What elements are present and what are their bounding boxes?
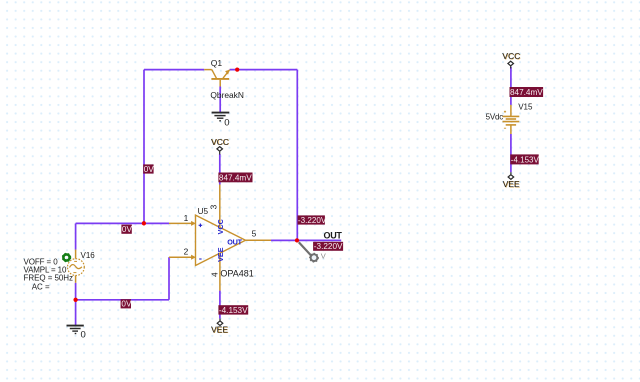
svg-text:0V: 0V xyxy=(122,225,133,234)
wire: V16 bottom down to ground junction xyxy=(75,283,77,325)
voltage label 0V (below pin1 wire) xyxy=(121,225,132,234)
voltage label -3.220V (OUT) xyxy=(313,242,343,251)
svg-text:847.4mV: 847.4mV xyxy=(510,88,543,97)
svg-text:VCC: VCC xyxy=(211,137,229,147)
svg-text:V15: V15 xyxy=(518,102,533,111)
op-amp plus input mark xyxy=(199,224,203,228)
svg-text:VEE: VEE xyxy=(211,325,228,335)
ground 0 (bottom left) xyxy=(67,326,84,334)
junction dot (OUT node) xyxy=(295,238,299,242)
op-amp U5 pin1 lead xyxy=(169,221,195,225)
voltage label 847.4mV (right) xyxy=(510,87,544,97)
svg-text:V16: V16 xyxy=(81,251,96,260)
svg-text:0V: 0V xyxy=(144,165,155,174)
bias point marker (green) xyxy=(62,253,70,261)
svg-text:VEE: VEE xyxy=(216,247,225,262)
ground 0 under Q1 xyxy=(212,113,230,121)
wire: op-amp output to OUT stub xyxy=(271,239,341,241)
wire: Q1 emitter to right corner xyxy=(230,69,298,71)
wire: vertical up to op-amp pin 2 xyxy=(168,257,170,300)
svg-text:4: 4 xyxy=(210,272,220,277)
voltage label -3.220V (right vertical wire) xyxy=(298,215,327,225)
wire: VCC branch down to op-amp pin 3 xyxy=(219,154,221,185)
wire: right vertical down to OUT node xyxy=(296,70,298,241)
svg-text:3: 3 xyxy=(209,204,219,209)
source V16 xyxy=(68,250,85,283)
svg-text:VCC: VCC xyxy=(216,219,225,234)
svg-text:5Vdc: 5Vdc xyxy=(486,113,504,122)
op-amp U5 pin5 lead xyxy=(246,239,272,241)
wire: right VCC down to V15 plus xyxy=(510,67,512,105)
svg-text:0V: 0V xyxy=(121,300,132,309)
wire: horizontal to op-amp pin 1 xyxy=(76,222,169,224)
svg-text:U5: U5 xyxy=(198,207,209,216)
op-amp U5 pin2 lead xyxy=(169,255,195,259)
op-amp U5 pin3 lead xyxy=(219,185,221,228)
wire: op-amp pin 4 down to VEE xyxy=(219,291,221,319)
svg-text:OUT: OUT xyxy=(227,237,242,246)
voltage label -4.153V (mid) xyxy=(218,305,248,315)
power symbol VEE (mid) xyxy=(217,319,223,326)
op-amp U5 pin4 lead xyxy=(219,254,221,291)
junction dot (Q1 emitter) xyxy=(235,67,239,71)
svg-text:2: 2 xyxy=(184,247,189,257)
voltage probe marker at OUT xyxy=(299,242,318,262)
wire: bottom horizontal xyxy=(76,299,169,301)
op-amp U5 triangle xyxy=(196,215,246,265)
svg-text:-4.153V: -4.153V xyxy=(511,155,540,164)
svg-text:V: V xyxy=(321,252,326,261)
power symbol VEE (right) xyxy=(508,172,514,179)
voltage label -4.153V (right) xyxy=(510,154,539,164)
svg-text:OPA481: OPA481 xyxy=(220,268,253,278)
svg-text:-4.153V: -4.153V xyxy=(219,306,248,315)
wire: Q1 base to ground 0 xyxy=(219,87,221,113)
svg-text:-3.220V: -3.220V xyxy=(298,216,327,225)
voltage label 847.4mV (mid) xyxy=(218,173,252,183)
wire: left vertical (collector node) xyxy=(143,70,145,224)
svg-text:Q1: Q1 xyxy=(211,58,223,68)
wire: top horizontal to Q1 collector xyxy=(144,69,204,71)
transistor Q1 xyxy=(204,70,229,87)
svg-text:VCC: VCC xyxy=(502,51,520,61)
svg-text:QbreakN: QbreakN xyxy=(210,90,244,100)
svg-text:847.4mV: 847.4mV xyxy=(219,173,252,182)
voltage label 0V (bottom wire) xyxy=(121,299,132,308)
junction dot (source bottom) xyxy=(73,298,77,302)
wire: V15 minus down to right VEE xyxy=(510,134,512,172)
svg-text:0: 0 xyxy=(224,117,229,128)
junction dot (left node) xyxy=(142,221,146,225)
svg-text:AC =: AC = xyxy=(32,282,50,291)
svg-text:OUT: OUT xyxy=(324,231,343,241)
wire: V16 top to horizontal node xyxy=(75,223,77,249)
battery V15 xyxy=(503,105,520,134)
svg-text:0: 0 xyxy=(81,330,86,341)
voltage label 0V (on left vertical wire) xyxy=(143,164,154,173)
svg-text:FREQ = 50Hz: FREQ = 50Hz xyxy=(24,274,74,283)
svg-text:1: 1 xyxy=(184,213,189,223)
op-amp minus input mark xyxy=(199,258,201,260)
svg-text:-3.220V: -3.220V xyxy=(314,242,343,251)
svg-text:5: 5 xyxy=(252,229,257,239)
svg-text:VEE: VEE xyxy=(503,179,520,189)
